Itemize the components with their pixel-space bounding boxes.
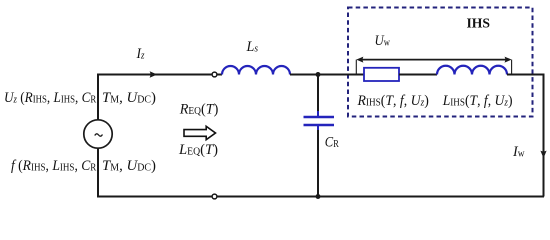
junction node (bottom of CR): [316, 194, 321, 199]
source U1 (AC): [84, 120, 112, 148]
svg-text:Ls: Ls: [246, 39, 259, 55]
tick right of Uw arrow: [511, 60, 513, 74]
wire: right vertical: [543, 74, 545, 197]
wire: capacitor branch upper lead: [317, 75, 319, 113]
capacitor CR: [304, 116, 335, 119]
equivalence block arrow: [184, 126, 216, 139]
svg-text:TM, UDC): TM, UDC): [102, 158, 156, 174]
svg-text:Iz: Iz: [136, 46, 145, 62]
svg-text:CR: CR: [325, 135, 339, 151]
svg-text:TM, UDC): TM, UDC): [102, 90, 156, 106]
wire: capacitor branch lower lead: [317, 125, 319, 131]
svg-text:LEQ(T): LEQ(T): [178, 142, 218, 158]
measurement arrow Uw (double headed): [360, 59, 508, 61]
wire: Ls to capacitor junction and on to IHS resistor: [290, 74, 364, 76]
svg-text:RIHS(T, f, Uz): RIHS(T, f, Uz): [357, 93, 429, 109]
svg-text:Iw: Iw: [512, 144, 525, 160]
svg-text:Uz (RIHS, LIHS, CR: Uz (RIHS, LIHS, CR: [4, 90, 97, 106]
wire: LIHS to right corner: [507, 74, 544, 76]
svg-text:Uw: Uw: [375, 33, 391, 49]
svg-text:REQ(T): REQ(T): [179, 102, 219, 118]
junction node (top of CR): [316, 72, 321, 77]
tick left of Uw arrow: [355, 60, 357, 74]
svg-text:LIHS(T, f, Uz): LIHS(T, f, Uz): [442, 93, 513, 109]
wire: left vertical from source to bottom wire: [97, 148, 99, 196]
svg-text:IHS: IHS: [467, 17, 491, 32]
node terminal (bottom, open circle): [212, 194, 217, 199]
inductor Ls: [222, 66, 290, 75]
IHS enclosure dashed box: [348, 8, 533, 117]
svg-text:f (RIHS, LIHS, CR: f (RIHS, LIHS, CR: [11, 158, 97, 174]
resistor RIHS: [364, 68, 399, 81]
inductor LIHS: [437, 66, 507, 75]
wire: resistor to inductor LIHS: [399, 74, 437, 76]
wire: left vertical from top wire to source: [97, 74, 99, 120]
current arrow Iz: [150, 71, 158, 77]
current arrow Iw (down): [540, 151, 546, 159]
wire bottom: [97, 196, 544, 198]
wire top: source top to node: [98, 74, 222, 76]
node terminal (top, open circle): [212, 72, 217, 77]
